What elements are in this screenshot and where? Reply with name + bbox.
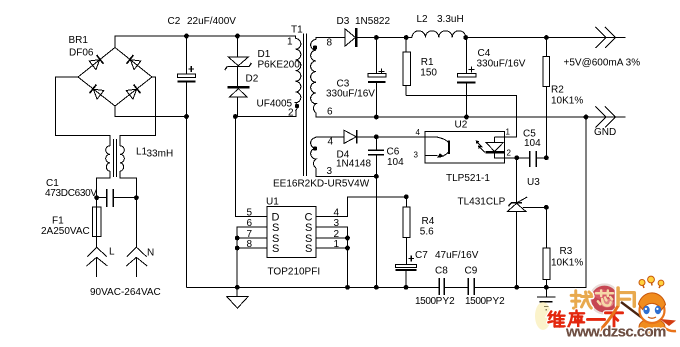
wire: AC right vertex to L1 right winding xyxy=(120,77,155,146)
pin label U1-2 xyxy=(334,229,340,240)
T1 phase dot primary xyxy=(295,104,299,108)
node: GND rail dots C3, C4, GND-stub xyxy=(374,115,588,120)
svg-text:Y2: Y2 xyxy=(493,296,506,307)
U1 internal pin letters xyxy=(272,212,313,256)
svg-text:D2: D2 xyxy=(246,74,259,85)
pin label T1-2 xyxy=(288,108,294,119)
node: C2 bottom junction xyxy=(184,114,189,119)
label R3 10K1% xyxy=(551,246,583,269)
svg-text:U3: U3 xyxy=(527,177,540,188)
capacitor C6 104 xyxy=(375,137,377,177)
svg-text:6: 6 xyxy=(327,107,333,118)
pin label U1-3 xyxy=(334,218,340,229)
watermark text 片 (gold) xyxy=(618,288,634,307)
terminal L input arrow xyxy=(87,247,108,277)
label C9 xyxy=(465,266,478,277)
svg-text:D3: D3 xyxy=(337,16,350,27)
wire: L1 right winding down to C1 node xyxy=(120,171,136,198)
label TOP210PFI xyxy=(268,267,321,278)
T1 phase dot aux xyxy=(313,146,317,150)
wire: secondary +5V rail xyxy=(358,37,626,39)
node: C1 junction dots xyxy=(94,195,139,200)
svg-text:47uF/16V: 47uF/16V xyxy=(435,250,479,261)
label C7 47uF/16V xyxy=(415,250,479,261)
diode BR1-D bottom-left xyxy=(90,85,104,100)
U2 LED light arrows xyxy=(476,141,485,152)
label C3 330uF/16V xyxy=(326,79,375,100)
terminal +5V output arrow xyxy=(595,27,615,48)
svg-text:TLP521-1: TLP521-1 xyxy=(446,173,490,184)
svg-text:10K1%: 10K1% xyxy=(551,258,583,269)
watermark text 芯 (light on badge) xyxy=(596,290,613,305)
svg-text:T1: T1 xyxy=(291,25,303,36)
wire: secondary GND rail xyxy=(316,113,626,117)
inductor L1 right winding xyxy=(120,146,124,171)
node: LED cathode junction xyxy=(514,155,519,160)
node: ref junction dot xyxy=(544,205,549,210)
svg-text:5: 5 xyxy=(247,208,253,219)
wire: R1 bottom to opto LED anode pin1 xyxy=(406,96,516,137)
label D2 xyxy=(246,74,259,85)
resistor R4 5.6 xyxy=(405,197,407,265)
label C4 330uF/16V xyxy=(477,48,526,70)
svg-text:C8: C8 xyxy=(435,266,448,277)
wire: U1 pin6 to source bus xyxy=(237,227,267,287)
svg-text:C9: C9 xyxy=(465,266,478,277)
pin label U2-4 xyxy=(416,128,421,137)
wire: primary source bottom rail xyxy=(187,117,587,287)
mascot orange robot xyxy=(597,276,676,335)
svg-text:4: 4 xyxy=(416,128,421,137)
label +5V@600mA 3% xyxy=(564,58,641,69)
resistor R1 150 xyxy=(405,38,407,96)
svg-text:N: N xyxy=(147,248,154,259)
transistor U3 TL431CLP shunt regulator xyxy=(516,158,518,203)
ground: primary chassis triangle xyxy=(227,287,248,308)
wire: C6 node down to source rail xyxy=(375,176,377,287)
label D1 P6KE200 xyxy=(258,49,301,71)
terminal N input arrow xyxy=(126,198,147,277)
pin label U1-5 xyxy=(247,208,253,219)
svg-text:1N5822: 1N5822 xyxy=(355,16,390,27)
pin label T1-6 xyxy=(327,107,333,118)
svg-text:U1: U1 xyxy=(266,197,279,208)
svg-text:2A250VAC: 2A250VAC xyxy=(41,226,90,237)
watermark text 维 (red) xyxy=(548,311,564,326)
svg-text:GND: GND xyxy=(594,127,616,138)
pin label T1-1 xyxy=(287,37,293,48)
label 1500P Y2 (C8) xyxy=(415,296,455,307)
op-amp U2 TLP521-1 optocoupler box xyxy=(425,132,505,164)
label C6 104 xyxy=(387,147,405,169)
svg-text:8: 8 xyxy=(327,38,333,49)
label 90VAC-264VAC xyxy=(90,287,161,298)
wire: drain rail D2 to T1 pin2 xyxy=(235,111,296,117)
pin label U1-6 xyxy=(247,218,253,229)
inductor L2 3.3uH xyxy=(412,31,466,38)
terminal GND output arrow xyxy=(595,107,615,128)
wire: TL431 ref to divider node xyxy=(523,206,546,208)
label GND xyxy=(594,127,616,138)
svg-text:Y2: Y2 xyxy=(443,296,456,307)
wire: AC left vertex to L1 left winding xyxy=(56,77,110,146)
diode D2 UF4005 xyxy=(237,66,239,86)
label C2 22uF/400V xyxy=(168,16,237,27)
label TLP521-1 xyxy=(446,173,490,184)
pin label U1-4 xyxy=(334,208,340,219)
label C1 473DC630V xyxy=(45,178,97,199)
wire: primary top rail (bridge + to C2/D1/T1 pin1) xyxy=(115,36,296,48)
svg-text:90VAC-264VAC: 90VAC-264VAC xyxy=(90,287,161,298)
label R4 5.6 xyxy=(420,216,435,238)
svg-text:C7: C7 xyxy=(415,250,428,261)
svg-text:1: 1 xyxy=(506,128,511,137)
svg-text:R2: R2 xyxy=(551,85,564,96)
watermark glow xyxy=(535,302,551,330)
svg-text:C2: C2 xyxy=(168,16,181,27)
label UF4005 xyxy=(257,99,293,110)
svg-text:4: 4 xyxy=(328,137,334,148)
svg-text:BR1: BR1 xyxy=(69,35,89,46)
wire: drain drop to U1 pin5 xyxy=(235,117,267,217)
label D3 1N5822 xyxy=(337,16,391,27)
svg-text:R4: R4 xyxy=(422,216,435,227)
diode D4 1N4148 xyxy=(316,136,344,139)
label U3 xyxy=(527,177,540,188)
watermark text 一 (red) xyxy=(587,317,604,322)
svg-text:1N4148: 1N4148 xyxy=(336,159,371,170)
label U1 xyxy=(266,197,279,208)
svg-text:+5V@600mA 3%: +5V@600mA 3% xyxy=(564,58,641,69)
pin label U1-1 xyxy=(334,239,340,250)
svg-text:DF06: DF06 xyxy=(69,48,94,59)
node: pins 2,1 junction dots xyxy=(345,236,350,251)
label R1 150 xyxy=(420,57,437,79)
svg-text:2: 2 xyxy=(288,108,294,119)
svg-text:104: 104 xyxy=(387,157,404,168)
svg-text:C4: C4 xyxy=(478,48,491,59)
pin label U2-2 xyxy=(507,149,512,158)
transformer T1 aux winding pins 4-3 xyxy=(311,138,316,168)
node: control node dot xyxy=(404,194,409,199)
svg-text:3: 3 xyxy=(414,151,419,160)
wire: U1 pin1 xyxy=(316,247,348,249)
capacitor C7 47uF/16V electrolytic xyxy=(395,265,416,268)
label C5 104 xyxy=(523,129,541,150)
capacitor C5 104 xyxy=(517,157,547,159)
watermark text 库 (red) xyxy=(568,310,584,326)
wire: U1 pin8 xyxy=(237,247,267,249)
svg-text:33mH: 33mH xyxy=(147,149,174,160)
wire: bridge minus to C2 bottom rail xyxy=(115,106,187,117)
capacitor C4 330uF/16V electrolytic xyxy=(466,38,468,118)
svg-text:1500P: 1500P xyxy=(465,296,493,307)
pin label T1-8 xyxy=(327,38,333,49)
wire: U1 pin4 control to R4 node xyxy=(316,197,406,217)
U2 phototransistor xyxy=(425,137,449,143)
svg-text:2: 2 xyxy=(507,149,512,158)
svg-text:104: 104 xyxy=(524,138,541,149)
svg-text:22uF/400V: 22uF/400V xyxy=(187,16,236,27)
L1 core bars xyxy=(114,139,117,177)
svg-text:F1: F1 xyxy=(52,216,64,227)
inductor L1 common-mode choke left winding xyxy=(106,146,110,171)
pin label U2-3 xyxy=(414,151,419,160)
label BR1 DF06 xyxy=(69,35,94,59)
svg-text:C6: C6 xyxy=(387,147,400,158)
label L2 3.3uH xyxy=(417,14,464,25)
watermark text 下 (red) xyxy=(605,313,622,327)
wire: T1 pin3 to C6 bottom xyxy=(316,168,376,176)
pin label T1-3 xyxy=(327,166,333,177)
diode BR1-D top-left xyxy=(89,55,103,70)
svg-text:R3: R3 xyxy=(560,246,573,257)
svg-text:5.6: 5.6 xyxy=(420,227,434,238)
svg-text:D1: D1 xyxy=(258,49,271,60)
diode D3 1N5822 xyxy=(345,29,355,46)
label L xyxy=(109,247,115,258)
diode BR1-D bottom-right xyxy=(126,85,140,100)
node: rail dots D3/C3, R1, C4, R2 xyxy=(374,35,549,40)
op-amp U1 TOP210PFI box xyxy=(267,207,316,258)
svg-text:R1: R1 xyxy=(421,57,434,68)
wire: L1 left winding down to C1 node xyxy=(97,171,110,198)
svg-text:U2: U2 xyxy=(455,120,468,131)
transformer T1 secondary winding pins 8-6 xyxy=(311,40,316,113)
svg-text:P6KE200: P6KE200 xyxy=(258,60,301,71)
node: D4 cathode junction xyxy=(374,134,379,139)
wire: U1 pin7 xyxy=(237,237,267,239)
svg-text:330uF/16V: 330uF/16V xyxy=(326,89,375,100)
bridge rectifier BR1 diamond xyxy=(78,48,152,107)
label U2 xyxy=(455,120,468,131)
svg-text:EE16R2KD-UR5V4W: EE16R2KD-UR5V4W xyxy=(273,179,370,190)
wire: U1 pin3 to right source bus xyxy=(316,227,348,287)
svg-text:TL431CLP: TL431CLP xyxy=(458,197,506,208)
svg-text:L: L xyxy=(109,247,115,258)
watermark: dzsc.com logo cluster xyxy=(535,276,676,340)
resistor R2 10K1% xyxy=(545,38,547,159)
wire: T1 pin8 to D3 xyxy=(316,38,345,40)
svg-text:www.dzsc.com: www.dzsc.com xyxy=(565,324,666,341)
pin label U1-8 xyxy=(247,239,253,250)
label D4 1N4148 xyxy=(336,150,371,170)
watermark text 找 (gold) xyxy=(571,291,592,309)
node: pins 7,8 junction dots xyxy=(235,236,240,251)
diode BR1-D top-right xyxy=(127,55,141,70)
svg-text:L2: L2 xyxy=(417,14,429,25)
svg-text:TOP210PFI: TOP210PFI xyxy=(268,267,321,278)
watermark badge circle xyxy=(590,285,619,314)
pin label U2-1 xyxy=(506,128,511,137)
label L1 33mH xyxy=(136,147,173,160)
capacitor C1 473 DC630V xyxy=(97,197,137,199)
label TL431CLP xyxy=(458,197,506,208)
transformer T1 primary winding pins 1-2 xyxy=(296,39,301,111)
node: C5 right junction on R2 divider line xyxy=(544,155,549,160)
label F1 2A250VAC xyxy=(41,216,90,238)
svg-text:S: S xyxy=(305,243,312,255)
T1 core bars xyxy=(304,34,307,177)
pin label U1-7 xyxy=(247,229,253,240)
svg-text:3.3uH: 3.3uH xyxy=(437,14,464,25)
svg-text:3: 3 xyxy=(327,166,333,177)
fuse F1 xyxy=(96,198,98,248)
node: bottom rail junction dots xyxy=(235,285,549,290)
capacitor C2 22uF/400V electrolytic xyxy=(186,36,188,287)
label N xyxy=(147,248,154,259)
svg-text:330uF/16V: 330uF/16V xyxy=(477,59,526,70)
T1 phase dot secondary xyxy=(313,45,317,49)
svg-text:1500P: 1500P xyxy=(415,296,443,307)
svg-text:150: 150 xyxy=(420,68,437,79)
node: junction dots on top rail xyxy=(184,34,240,39)
wire: U1 pin2 xyxy=(316,237,348,239)
resistor R3 10K1% xyxy=(545,207,547,287)
capacitor C9 1500P Y2 xyxy=(468,278,474,295)
node: D2 bottom junction on drain rail xyxy=(233,114,238,119)
label R2 10K1% xyxy=(551,85,583,107)
svg-text:1: 1 xyxy=(287,37,293,48)
label 1500P Y2 (C9) xyxy=(465,296,505,307)
node: C6 bottom junction xyxy=(374,174,379,179)
U2 LED (right half) xyxy=(494,137,496,143)
capacitor C3 330uF/16V electrolytic xyxy=(375,38,377,118)
svg-text:473DC630V: 473DC630V xyxy=(45,188,97,199)
label C8 xyxy=(435,266,448,277)
ground: secondary earth symbol xyxy=(545,287,547,296)
diode D1 P6KE200 TVS xyxy=(237,36,239,57)
svg-text:S: S xyxy=(272,243,279,255)
svg-text:10K1%: 10K1% xyxy=(551,96,583,107)
label EE16R2KD-UR5V4W xyxy=(273,179,370,190)
capacitor C8 1500P Y2 xyxy=(439,278,444,295)
label T1 xyxy=(291,25,303,36)
pin label T1-4 xyxy=(328,137,334,148)
